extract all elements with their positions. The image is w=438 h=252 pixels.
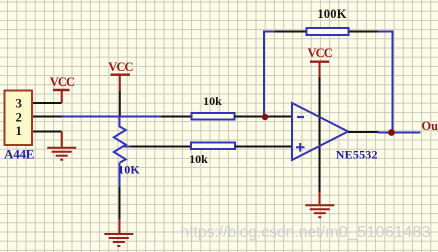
power VCC (pull-up node) symbol — [108, 60, 133, 91]
wire: feedback left vertical (top corner to inverting node) — [263, 31, 265, 118]
wire: R 10k (bottom) to non-inverting input — [235, 146, 292, 148]
resistor R 100K body — [307, 28, 349, 35]
svg-text:https://blog.csdn.net: https://blog.csdn.net — [181, 224, 322, 241]
junction: output node — [388, 129, 395, 136]
resistor R 10K (vertical zigzag) — [114, 117, 126, 163]
ground (sensor pin 1) — [47, 132, 76, 160]
svg-text:10k: 10k — [203, 94, 222, 108]
svg-text:/m0_51061483: /m0_51061483 — [321, 224, 431, 241]
wire: zigzag bottom blue segment — [119, 163, 121, 187]
ground (op-amp supply) — [305, 192, 334, 217]
wire: zigzag bottom black segment — [119, 187, 121, 219]
pin 1 lead — [33, 131, 62, 133]
wire: R 10k (top) to inverting input — [235, 116, 292, 118]
svg-text:1: 1 — [15, 124, 21, 138]
wire: VCC stem to signal wire (black) — [119, 91, 121, 116]
wire: top rail black segment right of R 100K — [349, 31, 379, 33]
wire: op-amp supply vertical (through op-amp to ground) — [319, 77, 321, 192]
wire: black segment into R 10k (top) — [161, 116, 192, 118]
svg-text:2: 2 — [15, 110, 21, 124]
wire: black segment into R 10k (bottom) — [131, 146, 192, 148]
pin 3 lead — [33, 102, 62, 104]
op-amp U NE5532 — [292, 103, 378, 162]
connector A44E body — [5, 91, 33, 146]
svg-text:NE5532: NE5532 — [336, 148, 378, 162]
svg-text:VCC: VCC — [108, 60, 133, 74]
svg-text:VCC: VCC — [50, 75, 75, 89]
wire: feedback top rail right blue segment — [378, 31, 393, 33]
pin 2 lead — [33, 116, 62, 118]
svg-text:10K: 10K — [118, 162, 140, 176]
wire: output node blue segment to Out — [378, 132, 421, 134]
wire: signal net from pin 2 (blue) — [62, 116, 162, 118]
svg-text:A44E: A44E — [4, 147, 34, 162]
wire: top rail black segment left of R 100K — [275, 31, 307, 33]
wire: op-amp output (black) — [348, 131, 379, 133]
ground (divider bottom) — [104, 219, 133, 246]
svg-text:10k: 10k — [189, 152, 208, 166]
power VCC (sensor supply) symbol — [50, 75, 75, 103]
resistor R 10k (top) body — [192, 113, 235, 120]
junction: inverting input node — [262, 114, 268, 120]
svg-text:VCC: VCC — [308, 46, 333, 60]
wire: divider tap blue stub — [123, 146, 132, 148]
resistor R 10k (bottom) body — [191, 143, 235, 150]
wire: feedback right vertical (top corner to output node) — [392, 31, 394, 133]
svg-text:Out: Out — [422, 119, 438, 133]
svg-text:3: 3 — [15, 97, 21, 111]
power VCC (op-amp supply) symbol — [308, 46, 333, 77]
wire: feedback top rail left blue segment — [264, 31, 276, 33]
svg-text:100K: 100K — [317, 7, 346, 21]
